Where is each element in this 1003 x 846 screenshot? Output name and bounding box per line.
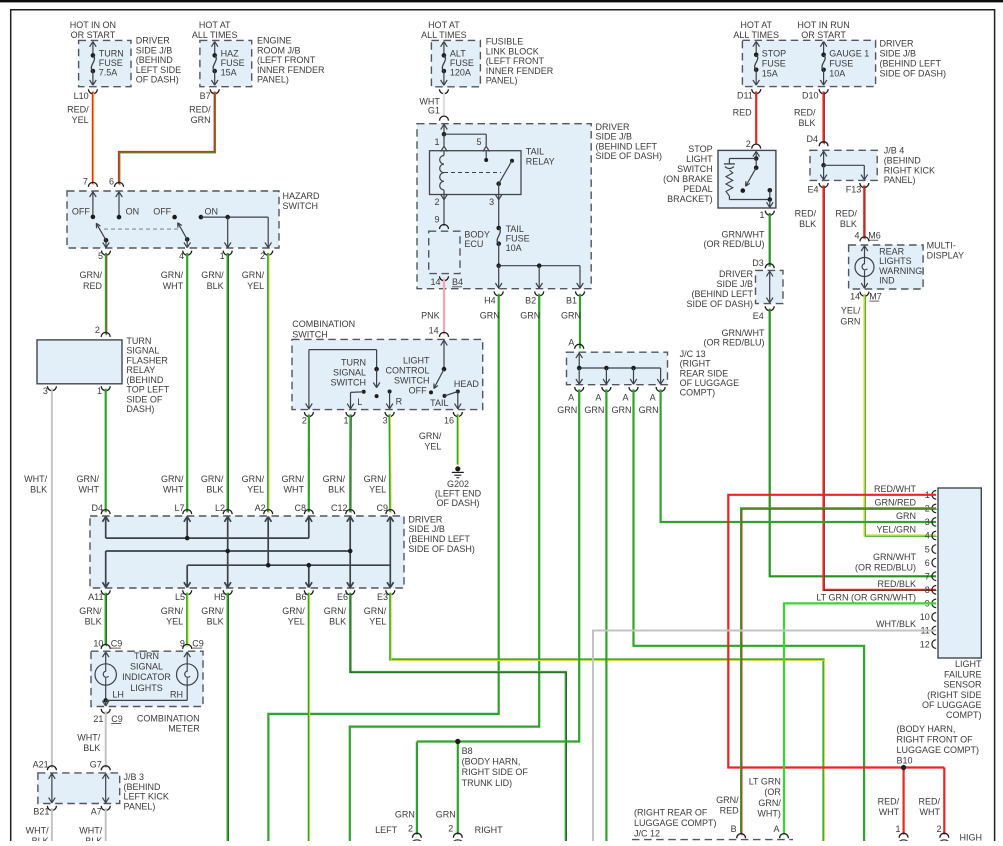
- connector comb pin 3: [385, 412, 394, 417]
- connector H4: [494, 291, 503, 296]
- svg-text:ENGINE: ENGINE: [257, 36, 292, 46]
- svg-text:RIGHT SIDE OF: RIGHT SIDE OF: [462, 767, 529, 777]
- svg-text:4: 4: [179, 251, 184, 261]
- svg-text:3: 3: [925, 517, 930, 527]
- svg-text:GRN: GRN: [520, 311, 540, 321]
- svg-text:HOT IN RUN: HOT IN RUN: [797, 20, 849, 30]
- svg-text:2: 2: [448, 824, 453, 834]
- svg-text:H5: H5: [214, 592, 226, 602]
- hazard switch OFF contact 2: [172, 215, 177, 220]
- svg-text:LUGGAGE COMPT): LUGGAGE COMPT): [897, 745, 980, 755]
- svg-text:WHT: WHT: [284, 484, 305, 494]
- svg-text:(LEFT FRONT: (LEFT FRONT: [257, 55, 316, 65]
- turn signal L contact: [362, 390, 366, 394]
- wire WHT/BLK pin21 to G7: [105, 711, 107, 768]
- svg-text:WHT/BLK: WHT/BLK: [876, 619, 916, 629]
- hazard switch pole 7: [90, 192, 93, 197]
- connector B1: [576, 291, 585, 295]
- svg-text:WHT/: WHT/: [24, 474, 47, 484]
- svg-text:12: 12: [920, 639, 930, 649]
- svg-text:YEL: YEL: [247, 281, 264, 291]
- svg-text:RED/: RED/: [878, 797, 900, 807]
- svg-text:WHT: WHT: [879, 807, 900, 817]
- svg-text:(BEHIND: (BEHIND: [124, 782, 162, 792]
- svg-text:DRIVER: DRIVER: [596, 122, 631, 132]
- svg-text:16: 16: [444, 416, 454, 426]
- svg-text:ROOM J/B: ROOM J/B: [257, 46, 301, 56]
- connector hazard pin 6: [115, 182, 124, 187]
- svg-text:OFF: OFF: [409, 386, 427, 396]
- junction block DRIVER SIDE J/B 2: [101, 510, 110, 515]
- svg-text:DRIVER: DRIVER: [719, 269, 754, 279]
- wire RED/BLK F13 to multi-display M6: [863, 185, 865, 238]
- svg-text:HEAD: HEAD: [454, 379, 480, 389]
- wire WHT/BLK flasher3 to J/B3 A21: [51, 389, 53, 768]
- connector 14 / B4: [440, 276, 449, 281]
- bulb LH turn indicator: [102, 652, 105, 657]
- svg-text:INNER FENDER: INNER FENDER: [486, 66, 554, 76]
- wire GRN/YEL L5 to indicator pin 9: [186, 593, 188, 646]
- wire WHT to G1: [443, 92, 445, 117]
- connector flasher pin 2: [101, 332, 110, 336]
- svg-text:GRN/: GRN/: [201, 606, 224, 616]
- svg-text:COMPT): COMPT): [680, 388, 716, 398]
- svg-text:ON: ON: [126, 206, 140, 216]
- svg-text:LINK BLOCK: LINK BLOCK: [486, 46, 539, 56]
- fuse ALT FUSE 120A: [441, 42, 444, 47]
- svg-text:SIDE J/B: SIDE J/B: [136, 46, 173, 56]
- svg-text:BLK: BLK: [206, 484, 223, 494]
- connector D10: [819, 89, 828, 94]
- svg-text:FUSE: FUSE: [829, 59, 853, 69]
- svg-text:SIDE OF DASH): SIDE OF DASH): [686, 299, 753, 309]
- relay pin 2: [441, 195, 444, 200]
- light control TAIL contact: [443, 394, 447, 398]
- svg-text:BLK: BLK: [840, 219, 857, 229]
- svg-text:COMBINATION: COMBINATION: [137, 713, 200, 723]
- svg-text:J/C 13: J/C 13: [680, 349, 706, 359]
- svg-text:FAILURE: FAILURE: [944, 669, 982, 679]
- svg-text:GRN: GRN: [557, 405, 577, 415]
- svg-text:9: 9: [180, 639, 185, 649]
- svg-text:GRN/: GRN/: [758, 798, 781, 808]
- svg-text:METER: METER: [168, 723, 200, 733]
- svg-text:SWITCH: SWITCH: [677, 164, 713, 174]
- svg-text:GRN/: GRN/: [161, 474, 184, 484]
- junction connector J/C 13: [567, 352, 668, 385]
- svg-text:M7: M7: [869, 292, 882, 302]
- svg-text:6: 6: [925, 558, 930, 568]
- svg-text:14: 14: [429, 326, 439, 336]
- hazard mechanical dashed link: [104, 228, 181, 230]
- svg-text:PEDAL: PEDAL: [683, 184, 713, 194]
- connector F13: [860, 183, 869, 188]
- svg-text:GRN/: GRN/: [80, 270, 103, 280]
- svg-text:GRN/: GRN/: [323, 474, 346, 484]
- connector below ALT fuse: [439, 89, 448, 94]
- svg-text:GRN: GRN: [395, 810, 415, 820]
- svg-text:E3: E3: [377, 592, 388, 602]
- svg-text:BODY: BODY: [464, 230, 490, 240]
- connector E4 (driver J/B): [765, 306, 774, 311]
- connector B21: [47, 806, 56, 811]
- wire GRN/RED sensor pin2 to J/C12 B: [741, 508, 936, 834]
- svg-text:D10: D10: [802, 90, 819, 100]
- svg-text:A: A: [568, 392, 574, 402]
- stop light switch internals: [753, 151, 756, 156]
- svg-text:RED/: RED/: [794, 108, 816, 118]
- svg-text:OR START: OR START: [801, 30, 846, 40]
- wire GRN/YEL B6 down: [308, 593, 310, 841]
- sensor pin arcs and numbers: [932, 491, 936, 500]
- svg-text:RED: RED: [83, 281, 103, 291]
- svg-text:SWITCH: SWITCH: [292, 329, 328, 339]
- svg-text:WHT/: WHT/: [77, 733, 100, 743]
- wire RED/GRN B7 to hazard pin 6: [119, 92, 215, 185]
- svg-text:STOP: STOP: [688, 144, 712, 154]
- svg-text:15A: 15A: [762, 68, 778, 78]
- svg-text:(ON BRAKE: (ON BRAKE: [663, 174, 713, 184]
- connector B (J/C12): [737, 834, 746, 838]
- top black bar: [0, 0, 1003, 2]
- svg-text:GRN/RED: GRN/RED: [874, 497, 916, 507]
- svg-text:1: 1: [220, 251, 225, 261]
- junction box DRIVER SIDE J/B (D3-E4): [756, 270, 784, 303]
- J/B2 internal row 1: [105, 517, 107, 539]
- svg-text:RIGHT FRONT OF: RIGHT FRONT OF: [897, 735, 974, 745]
- bulb RH turn indicator: [184, 652, 187, 657]
- svg-text:OFF: OFF: [153, 206, 171, 216]
- svg-text:LIGHT: LIGHT: [955, 659, 982, 669]
- indicator MULTI-DISPLAY box: [849, 245, 924, 289]
- svg-text:L5: L5: [175, 592, 185, 602]
- svg-text:BLK: BLK: [799, 219, 816, 229]
- wire GRN J/C13-A2 down: [605, 389, 607, 841]
- wire GRN J/C13-A3 to right rear (via x864): [634, 389, 865, 841]
- light control switch pole: [441, 340, 444, 345]
- wire PNK B4 to combination switch pin 14: [443, 279, 445, 335]
- svg-text:RED/: RED/: [918, 797, 940, 807]
- svg-text:B21: B21: [33, 807, 49, 817]
- connector E4 (J/B4): [819, 183, 828, 188]
- svg-text:GRN: GRN: [436, 810, 456, 820]
- svg-text:OF LUGGAGE: OF LUGGAGE: [680, 378, 740, 388]
- svg-text:DISPLAY: DISPLAY: [927, 250, 964, 260]
- wire tail fuse to pins H4 B2 B1: [498, 244, 500, 266]
- svg-text:PNK: PNK: [421, 311, 440, 321]
- svg-text:7.5A: 7.5A: [99, 67, 118, 77]
- svg-text:J/C 12: J/C 12: [634, 828, 660, 838]
- svg-text:GRN/: GRN/: [242, 474, 265, 484]
- svg-text:SIDE J/B: SIDE J/B: [716, 279, 753, 289]
- svg-text:L10: L10: [74, 91, 89, 101]
- svg-text:LIGHT: LIGHT: [686, 154, 713, 164]
- connector D11: [752, 89, 761, 94]
- svg-text:COMBINATION: COMBINATION: [292, 319, 355, 329]
- svg-text:SENSOR: SENSOR: [943, 680, 982, 690]
- svg-text:OFF: OFF: [72, 206, 90, 216]
- relay pin 3: [495, 195, 498, 200]
- switch COMBINATION SWITCH box: [292, 339, 483, 409]
- svg-text:(BEHIND: (BEHIND: [126, 375, 164, 385]
- wire WHT/BLK A7 down: [105, 808, 107, 841]
- svg-text:A: A: [595, 392, 601, 402]
- wire WHT/BLK sensor pin11: [593, 631, 936, 842]
- svg-text:G7: G7: [90, 760, 102, 770]
- wire GRN/BLK H5 down: [227, 593, 229, 841]
- connector flasher pin 3: [47, 386, 56, 391]
- svg-text:TURN: TURN: [126, 336, 151, 346]
- wire WHT/BLK B21 down: [51, 808, 53, 841]
- svg-text:LT GRN: LT GRN: [749, 777, 781, 787]
- connector hazard pin 7: [88, 182, 97, 187]
- light control HEAD contact: [456, 390, 460, 394]
- svg-text:14: 14: [430, 277, 440, 287]
- svg-text:BLK: BLK: [329, 616, 346, 626]
- J/C13 internals: [576, 353, 579, 358]
- svg-text:BLK: BLK: [207, 281, 224, 291]
- svg-text:RED/: RED/: [67, 105, 89, 115]
- svg-text:BLK: BLK: [30, 484, 47, 494]
- svg-text:GRN/: GRN/: [201, 270, 224, 280]
- bulb REAR LIGHTS WARNING IND: [861, 246, 864, 251]
- svg-text:(OR: (OR: [764, 787, 781, 797]
- svg-text:(OR RED/BLU): (OR RED/BLU): [855, 563, 916, 573]
- svg-text:GRN: GRN: [612, 405, 632, 415]
- connector hazard pin 5: [102, 251, 111, 256]
- svg-text:GRN/: GRN/: [282, 474, 305, 484]
- light control arm to OFF: [434, 369, 444, 388]
- svg-text:E4: E4: [807, 185, 818, 195]
- svg-text:YEL/GRN: YEL/GRN: [876, 525, 916, 535]
- svg-text:BRACKET): BRACKET): [667, 194, 713, 204]
- svg-text:M6: M6: [868, 231, 881, 241]
- svg-text:YEL: YEL: [369, 616, 386, 626]
- svg-text:LT GRN (OR GRN/WHT): LT GRN (OR GRN/WHT): [816, 592, 916, 602]
- indicator common to pin 21: [103, 698, 108, 703]
- svg-text:PANEL): PANEL): [124, 802, 156, 812]
- svg-text:F13: F13: [846, 185, 862, 195]
- svg-text:REAR SIDE: REAR SIDE: [680, 368, 729, 378]
- svg-text:SIDE J/B: SIDE J/B: [880, 49, 917, 59]
- svg-text:LEFT KICK: LEFT KICK: [124, 792, 169, 802]
- svg-text:10A: 10A: [506, 243, 522, 253]
- connector flasher pin 1: [101, 386, 110, 391]
- svg-text:YEL: YEL: [424, 442, 441, 452]
- svg-text:(RIGHT SIDE: (RIGHT SIDE: [927, 690, 981, 700]
- svg-text:2: 2: [936, 824, 941, 834]
- svg-text:J/B 3: J/B 3: [124, 772, 145, 782]
- fuse box FUSIBLE LINK BLOCK: [431, 40, 480, 86]
- turn signal switch arm: [376, 369, 378, 388]
- svg-text:RIGHT: RIGHT: [475, 825, 504, 835]
- svg-text:GRN/WHT: GRN/WHT: [873, 552, 916, 562]
- svg-text:7: 7: [83, 177, 88, 187]
- svg-text:7: 7: [925, 571, 930, 581]
- svg-text:GRN: GRN: [840, 316, 860, 326]
- svg-text:5: 5: [98, 251, 103, 261]
- svg-text:C9: C9: [192, 639, 204, 649]
- wire HEAD contact to pin 16: [457, 392, 459, 409]
- svg-text:SIDE J/B: SIDE J/B: [596, 132, 633, 142]
- svg-text:YEL: YEL: [288, 616, 305, 626]
- wire GRN H4 branch to left rear: [268, 294, 498, 841]
- svg-text:SIDE OF DASH): SIDE OF DASH): [596, 151, 663, 161]
- svg-text:9: 9: [434, 215, 439, 225]
- svg-text:CONTROL: CONTROL: [385, 365, 429, 375]
- svg-text:(RIGHT: (RIGHT: [680, 359, 711, 369]
- svg-text:2: 2: [434, 197, 439, 207]
- svg-text:(BEHIND: (BEHIND: [884, 155, 922, 165]
- J/B3 internal arrows: [51, 774, 53, 803]
- svg-text:(BEHIND LEFT: (BEHIND LEFT: [691, 289, 753, 299]
- turn signal R contact: [388, 390, 392, 394]
- svg-text:TAIL: TAIL: [430, 398, 448, 408]
- fuse TAIL FUSE 10A: [496, 226, 501, 231]
- svg-text:B: B: [731, 824, 737, 834]
- svg-text:BLK: BLK: [798, 118, 815, 128]
- svg-text:OF DASH): OF DASH): [136, 75, 179, 85]
- junction B8: [457, 742, 459, 835]
- svg-text:5: 5: [476, 137, 481, 147]
- wire RED D11 to stop light switch pin 2: [755, 92, 757, 144]
- svg-text:2: 2: [260, 251, 265, 261]
- svg-text:L: L: [357, 397, 362, 407]
- connector 14 / M7: [860, 292, 869, 297]
- junction block DRIVER SIDE J/B (tail relay): [417, 124, 591, 289]
- svg-text:ON: ON: [205, 206, 219, 216]
- svg-text:SIDE OF DASH): SIDE OF DASH): [880, 69, 947, 79]
- svg-text:A: A: [622, 392, 628, 402]
- wire GRN/RED hazard5 to flasher pin2: [105, 253, 107, 335]
- svg-text:HOT IN ON: HOT IN ON: [70, 20, 116, 30]
- hazard switch arm 2: [185, 237, 190, 242]
- svg-text:PANEL): PANEL): [884, 175, 916, 185]
- svg-text:YEL/: YEL/: [841, 306, 861, 316]
- svg-text:D3: D3: [752, 258, 764, 268]
- svg-text:3: 3: [383, 416, 388, 426]
- svg-text:120A: 120A: [450, 67, 471, 77]
- svg-text:C12: C12: [331, 503, 348, 513]
- svg-text:GRN: GRN: [639, 405, 659, 415]
- svg-text:10: 10: [920, 612, 930, 622]
- BODY ECU box: [429, 231, 460, 273]
- fuse GAUGE 1 FUSE 10A: [820, 42, 823, 47]
- svg-text:A21: A21: [33, 760, 49, 770]
- svg-text:B2: B2: [525, 295, 536, 305]
- svg-text:GRN/: GRN/: [161, 270, 184, 280]
- resistor in stop light switch: [726, 170, 733, 196]
- svg-text:FUSE: FUSE: [762, 59, 786, 69]
- svg-text:GRN/: GRN/: [77, 474, 100, 484]
- switch STOP LIGHT SWITCH: [718, 150, 776, 208]
- svg-text:BLK: BLK: [207, 616, 224, 626]
- svg-text:GRN/: GRN/: [716, 795, 739, 805]
- svg-text:DRIVER: DRIVER: [136, 36, 171, 46]
- svg-text:H4: H4: [484, 295, 496, 305]
- svg-text:1: 1: [759, 210, 764, 220]
- wire GRN/YEL comb3 to C9: [389, 414, 392, 512]
- svg-text:(BODY HARN,: (BODY HARN,: [462, 757, 521, 767]
- svg-text:WHT): WHT): [757, 808, 781, 818]
- svg-text:E4: E4: [753, 311, 764, 321]
- svg-text:RH: RH: [170, 689, 183, 699]
- svg-text:10A: 10A: [829, 68, 845, 78]
- svg-text:ALL TIMES: ALL TIMES: [192, 30, 238, 40]
- svg-text:MULTI-: MULTI-: [927, 240, 956, 250]
- wire RED/WHT sensor pin1 to B10 and high mount stop lights: [728, 495, 944, 768]
- svg-text:(OR RED/BLU): (OR RED/BLU): [703, 239, 764, 249]
- svg-text:B8: B8: [462, 746, 473, 756]
- switch HAZARD SWITCH box: [67, 191, 279, 248]
- capacitor plates in stop light switch: [724, 163, 735, 165]
- svg-text:RED/: RED/: [795, 209, 817, 219]
- wire LT GRN sensor pin9 to J/C12 A: [784, 603, 936, 834]
- fuse TURN FUSE 7.5A: [90, 42, 93, 47]
- ground G202: [455, 466, 460, 471]
- svg-text:SWITCH: SWITCH: [331, 377, 367, 387]
- svg-text:A11: A11: [88, 592, 103, 602]
- connector A7: [101, 806, 110, 811]
- svg-text:WHT/: WHT/: [79, 826, 102, 836]
- svg-text:TAIL: TAIL: [526, 147, 544, 157]
- svg-text:LUGGAGE COMPT): LUGGAGE COMPT): [634, 818, 717, 828]
- svg-text:RED/: RED/: [189, 105, 211, 115]
- svg-text:D11: D11: [737, 90, 753, 100]
- wire GRN/WHT E4 to sensor pin 7: [770, 309, 936, 577]
- svg-text:B10: B10: [897, 756, 913, 766]
- svg-text:3: 3: [43, 386, 48, 396]
- svg-text:SWITCH: SWITCH: [394, 375, 430, 385]
- relay contact (pin5 side): [485, 151, 487, 160]
- svg-text:1: 1: [434, 137, 439, 147]
- svg-text:G202: G202: [447, 479, 469, 489]
- indicator TURN SIGNAL INDICATOR LIGHTS box: [91, 651, 203, 706]
- svg-text:LH: LH: [112, 689, 124, 699]
- connector comb pin 16: [453, 412, 462, 417]
- svg-text:(BEHIND LEFT: (BEHIND LEFT: [408, 534, 470, 544]
- svg-text:COMPT): COMPT): [946, 710, 982, 720]
- J/B2 internal row 2: [106, 550, 351, 552]
- svg-text:C9: C9: [111, 714, 123, 724]
- svg-text:HIGH: HIGH: [960, 833, 983, 842]
- svg-text:TURN: TURN: [134, 651, 159, 661]
- svg-text:PANEL): PANEL): [486, 76, 518, 86]
- svg-text:FUSE: FUSE: [506, 234, 530, 244]
- wire relay pin3 to tail fuse: [498, 184, 500, 228]
- connector hazard pin 1: [223, 251, 232, 256]
- fuse box DRIVER SIDE J/B (turn fuse): [79, 40, 131, 86]
- svg-text:INDICATOR: INDICATOR: [122, 672, 171, 682]
- svg-text:HOT AT: HOT AT: [199, 20, 231, 30]
- svg-text:1: 1: [895, 824, 900, 834]
- svg-text:GRN/: GRN/: [324, 606, 347, 616]
- svg-text:(BODY HARN,: (BODY HARN,: [897, 724, 956, 734]
- svg-text:GRN/: GRN/: [364, 474, 387, 484]
- svg-text:B6: B6: [295, 592, 306, 602]
- svg-text:RELAY: RELAY: [126, 365, 155, 375]
- svg-text:4: 4: [925, 531, 930, 541]
- svg-text:REAR: REAR: [879, 247, 905, 257]
- svg-text:INNER FENDER: INNER FENDER: [257, 65, 325, 75]
- svg-text:2: 2: [302, 416, 307, 426]
- svg-text:GRN/: GRN/: [282, 606, 305, 616]
- svg-text:SWITCH: SWITCH: [283, 201, 319, 211]
- svg-text:J/B 4: J/B 4: [884, 146, 905, 156]
- svg-text:GRN/: GRN/: [79, 606, 102, 616]
- svg-text:2: 2: [95, 325, 100, 335]
- hazard switch pole 6 / ON contact: [116, 192, 119, 197]
